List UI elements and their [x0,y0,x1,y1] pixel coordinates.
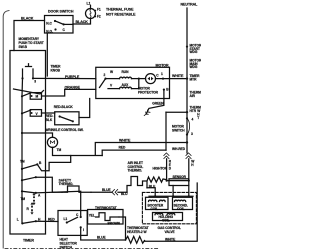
wire safety thermo feed [36,177,62,192]
terminal F1 [94,10,96,12]
svg-text:BLUE: BLUE [102,188,112,192]
air inlet thermostat element [127,177,147,193]
motor switch blade arc [187,118,190,134]
wire V to wrinkle switch [42,112,55,114]
timer aux contact pair two [31,206,33,208]
svg-text:4: 4 [192,117,194,121]
svg-text:T: T [197,116,199,120]
heat selector L1 dot [66,221,68,223]
svg-text:HIGHTOP: HIGHTOP [153,166,168,170]
sensor right dot [188,180,190,182]
svg-text:B: B [39,161,42,165]
neutral junction dot motor switch [186,111,188,113]
svg-text:C: C [156,74,159,78]
second coil box [173,197,193,209]
svg-text:SWITCH: SWITCH [60,245,73,249]
wire red sensor drop [166,159,168,181]
wire to protector [139,78,146,80]
svg-text:1: 1 [161,72,163,76]
door switch NC contact [54,20,56,22]
heat selector switch box [58,211,87,236]
booster coil winding [149,200,166,201]
wire orange into motor [65,88,96,90]
timer M blade [22,93,31,97]
timer motor feed junction [21,132,23,134]
terminal F2 [94,16,96,18]
neutral junction dot upper [186,46,188,48]
svg-text:AUX: AUX [122,83,130,87]
svg-text:MOTOR: MOTOR [156,63,170,67]
svg-text:V: V [110,84,113,88]
svg-text:YEL: YEL [89,214,95,218]
svg-text:NOT RESETABLE: NOT RESETABLE [106,13,136,17]
sensor box [169,179,189,186]
timer C blade [22,191,36,193]
motor box [96,67,170,98]
timer C contact dot [35,192,37,194]
svg-text:AIR: AIR [190,94,196,98]
wrinkle control switch box [55,112,79,125]
connector chevrons red [164,153,169,159]
neutral bus wire [186,8,188,153]
push button stem right [32,69,34,78]
wire common to box edge [64,23,73,25]
wire protector to neutral [156,78,188,80]
timer A blade [22,177,36,180]
green ground wire [146,90,164,114]
heat selector blade [67,217,78,222]
thermal fuse F1 circle [86,9,96,19]
heat selector C dot [80,216,82,218]
svg-text:WRINKLE CONTROL SW.: WRINKLE CONTROL SW. [46,128,84,132]
coil bus dot right [188,195,190,197]
gas control valve dashed box [142,192,196,223]
timer L cam dot [21,222,23,224]
motor terminal dot 2 [104,78,106,80]
wire sensor mid drop [172,186,174,197]
wire white bottom [145,183,198,241]
neutral junction dot white motor [186,77,188,79]
svg-text:THERMO.: THERMO. [128,169,143,173]
wire red staircase [37,150,166,171]
timer V cam dot [21,112,23,114]
svg-text:RED: RED [119,146,126,150]
svg-text:A: A [38,193,41,197]
thermostat heater resistor [126,236,145,243]
svg-text:RED-BLACK: RED-BLACK [54,105,74,109]
svg-text:W: W [110,70,114,74]
motor switch contact upper [186,117,188,119]
svg-text:DOOR SWITCH: DOOR SWITCH [48,10,74,14]
svg-text:RED: RED [48,218,55,222]
ground arrow [144,110,150,116]
protector out dot [162,78,164,80]
page left border [3,11,9,249]
svg-text:2: 2 [104,73,106,77]
wire air inlet to coil bus [147,188,155,196]
svg-text:I: I [83,228,84,232]
wire blue connector to air inlet [91,191,127,193]
motor B terminal dot [163,89,165,91]
svg-text:THERMAL FUSE: THERMAL FUSE [106,8,134,12]
svg-text:B: B [166,87,169,91]
timer A contact dot [35,176,37,178]
thermal fuse element [90,10,91,18]
contact dot right [32,77,34,79]
run winding right lead [132,78,139,80]
svg-text:HTR: HTR [190,109,197,113]
coil bus dot left [154,195,156,197]
svg-text:WHITE: WHITE [172,74,184,78]
svg-text:V: V [36,112,39,116]
svg-text:BLACK: BLACK [21,16,34,20]
svg-text:TM: TM [20,160,25,164]
aux winding lead [108,88,120,90]
svg-text:COIL: COIL [151,207,159,211]
timer M contact dot [31,95,33,97]
wire purple start to motor [33,77,96,79]
timer V blade [22,110,31,113]
timer M contact box [30,93,41,100]
timer A cam dot [21,179,23,181]
svg-text:WDG: WDG [190,50,198,54]
second coil winding [175,200,186,201]
aux winding coil [120,87,132,89]
wire thermostat down [119,217,126,240]
coil bus dot mid [172,195,174,197]
wire timer motor to neutral white [53,143,188,156]
motor centrifugal blade [100,79,106,88]
svg-text:SWITCH: SWITCH [172,128,185,132]
svg-text:KNOB: KNOB [51,68,61,72]
svg-text:WDG: WDG [190,65,198,69]
svg-text:WH-RED: WH-RED [172,147,186,151]
svg-text:R: R [27,207,30,211]
timer box [10,51,46,235]
wire heat selector feed [36,191,81,217]
connector chevrons neutral [186,153,191,159]
svg-text:ORANGE: ORANGE [65,86,81,90]
wire wrinkle switch to motor aux [79,99,90,118]
timer aux contact pair one [33,196,35,198]
svg-text:C: C [76,213,79,217]
svg-text:3: 3 [191,132,193,136]
timer motor TM circle [47,137,57,147]
svg-text:PURPLE: PURPLE [65,75,80,79]
svg-text:NEUTRAL: NEUTRAL [181,3,199,7]
svg-text:WHITE: WHITE [165,238,176,242]
wire stub below door switch [46,33,48,76]
contact dot left [21,77,23,79]
wire motor switch feed [166,111,187,113]
gas valve coil bus [149,195,193,197]
timer V contact dot [31,112,33,114]
door switch common contact [63,23,65,25]
heat selector I dot [80,226,82,228]
wrinkle switch pivot dot [59,115,61,117]
run winding coil [120,77,132,78]
svg-text:L: L [17,218,19,222]
aux winding right lead [132,79,139,89]
motor switch contact lower [186,134,188,136]
svg-text:HEATER-2 W: HEATER-2 W [127,230,147,234]
holding coil box [153,213,183,221]
svg-text:BLK: BLK [46,118,53,122]
timer C cam dot [21,190,23,192]
push button stem left [22,69,24,78]
wire M to orange riser [42,89,65,96]
wire sensor right drop [188,186,190,197]
door switch blade [55,21,64,25]
timer feed chain wire [21,78,24,223]
thermostat element [96,213,120,221]
booster coil box [146,197,169,209]
svg-text:3: 3 [34,80,36,84]
svg-text:D: D [169,167,172,171]
neutral junction dot white [186,141,188,143]
timer motor mark [50,141,54,144]
svg-text:WHITE: WHITE [119,138,131,142]
svg-text:M: M [36,95,39,99]
connector chevrons blue [112,190,118,195]
contact pair arrows one [33,193,35,204]
wrinkle switch contact dot [72,120,74,122]
wire fuse to door switch [73,19,91,25]
run winding lead [106,78,120,80]
wire sensor bus [167,180,189,182]
wire sensor feed riser [165,112,167,150]
sensor left dot [166,180,168,182]
wire blue [81,227,126,240]
svg-text:GREEN: GREEN [152,102,164,106]
wire door switch to start switch [14,21,45,51]
holding coil winding [155,213,175,214]
svg-text:MTR: MTR [190,77,198,81]
door switch box [45,16,74,34]
wire L1 stub [90,6,92,9]
svg-text:VALVE: VALVE [165,230,176,234]
timer B blade [22,164,37,169]
svg-text:BLACK: BLACK [76,20,89,24]
timer M cam dot [21,95,23,97]
junction dot coils [138,78,140,80]
svg-text:SW-B: SW-B [19,45,28,49]
svg-text:COIL: COIL [162,218,170,222]
motor protector element [148,77,154,81]
timer divider slant [14,89,44,94]
svg-text:BLUE: BLUE [97,236,107,240]
wire white sensor drop [188,159,190,181]
hi-limit resistor [147,177,167,182]
thermostat box [88,210,123,225]
svg-text:C: C [63,28,66,32]
svg-text:N.C: N.C [46,21,52,25]
svg-text:BROWN: BROWN [108,222,121,226]
svg-text:F1: F1 [97,8,101,12]
svg-text:PROTECTOR: PROTECTOR [138,90,159,94]
svg-text:L1: L1 [64,217,68,221]
wire to timer motor [22,133,53,137]
contact pair arrows two [31,203,33,214]
timer L blade [22,221,35,223]
page bottom dotted edge [5,247,160,249]
timer B cam dot [21,168,23,170]
svg-text:F2: F2 [97,15,101,19]
timer B contact dot [36,163,38,165]
svg-text:TM: TM [57,148,62,152]
wrinkle switch blade [60,117,73,122]
timer H contact dot [35,220,37,222]
wire red to heat selector [36,220,58,222]
motor protector circle [146,74,156,84]
svg-text:H: H [191,163,194,167]
svg-text:RUN: RUN [122,70,130,74]
svg-text:COIL: COIL [177,207,185,211]
push button bar [26,64,32,67]
svg-text:TM: TM [21,197,26,201]
timer V contact box [30,110,41,117]
door switch NO contact [54,28,56,30]
safety thermostat element [62,186,91,192]
svg-text:TIMER: TIMER [23,239,34,243]
